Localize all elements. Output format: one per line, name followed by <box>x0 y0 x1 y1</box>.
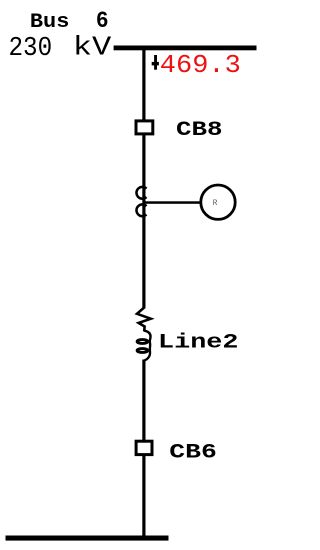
svg-text:Bus: Bus <box>30 11 70 34</box>
relay U1 (circle) <box>201 185 235 219</box>
bus nominal voltage label "230 kV" <box>9 33 113 64</box>
wire: vertical feeder from Bus 6 down to zigzag <box>142 49 145 308</box>
line flow value label "469.3" (red) <box>160 51 241 80</box>
CT coil upper arc <box>136 187 146 199</box>
svg-text:Line2: Line2 <box>158 332 239 355</box>
svg-text:469.3: 469.3 <box>160 51 241 80</box>
CT coil lower arc <box>136 204 146 216</box>
coil loop 2 <box>137 349 148 353</box>
svg-text:CB6: CB6 <box>169 442 217 465</box>
line impedance coil spine (inductance part of Line2) <box>144 331 151 361</box>
breaker label "CB6" <box>169 442 217 465</box>
svg-text:6: 6 <box>96 8 109 34</box>
breaker label "CB8" <box>176 119 223 142</box>
coil loop 1 <box>137 340 148 344</box>
bus Bus 6 (230 kV) top busbar <box>114 46 257 51</box>
circuit breaker CB6 (closed square) <box>136 441 152 454</box>
circuit breaker CB8 (closed square) <box>136 121 153 134</box>
relay label "R" <box>213 199 218 208</box>
wire: vertical feeder from coil down to bottom busbar <box>142 360 145 538</box>
bus name label "Bus 6" <box>30 8 109 34</box>
wire: horizontal lead from CT to relay <box>144 201 201 204</box>
svg-text:230: 230 <box>9 34 53 64</box>
svg-text:CB8: CB8 <box>176 119 223 142</box>
line label "Line2" <box>158 332 239 355</box>
bottom busbar <box>6 536 169 541</box>
flow arrow (down) at line tap <box>152 55 159 70</box>
line impedance zigzag (resistance part of Line2) <box>137 306 151 332</box>
svg-text:R: R <box>213 199 218 208</box>
svg-text:kV: kV <box>73 33 112 63</box>
